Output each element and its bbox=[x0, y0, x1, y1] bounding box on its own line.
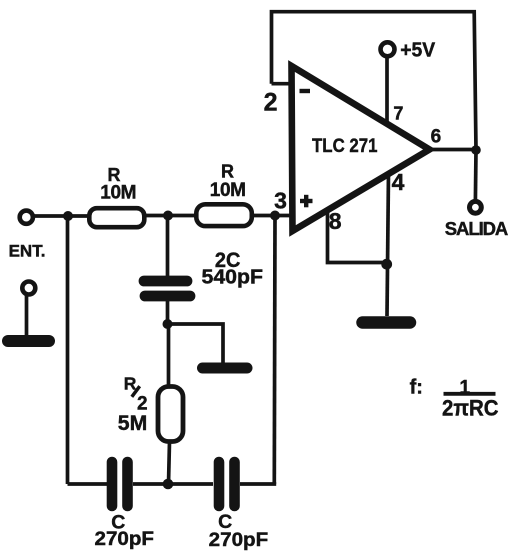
wire input to node A bbox=[34, 214, 90, 218]
wire output pin 6 bbox=[428, 148, 477, 152]
svg-text:7: 7 bbox=[393, 104, 403, 124]
node B (R midpoint) bbox=[163, 211, 173, 221]
capacitor 2C 540pF (plates) bbox=[144, 276, 187, 287]
svg-text:2πRC: 2πRC bbox=[442, 396, 499, 421]
terminal SALIDA (open circle) bbox=[470, 201, 482, 213]
resistor R1 10M bbox=[89, 208, 144, 227]
terminal ground input (open circle) bbox=[22, 282, 35, 295]
svg-text:2: 2 bbox=[264, 89, 278, 117]
svg-text:f:: f: bbox=[410, 377, 423, 399]
op-amp U1 TLC271 bbox=[292, 66, 430, 231]
svg-text:540pF: 540pF bbox=[202, 267, 264, 289]
wire pin 8 bbox=[328, 211, 386, 263]
ground (input) bbox=[8, 335, 49, 347]
terminal ENT (input open circle) bbox=[20, 211, 33, 224]
wire R1 to R2 bbox=[146, 214, 196, 218]
minus sign (pin 2) bbox=[300, 89, 311, 93]
plus sign (pin 3) bbox=[300, 199, 313, 203]
svg-text:SALIDA: SALIDA bbox=[445, 218, 509, 239]
wire 2C to node D bbox=[166, 300, 170, 324]
wire feedback top bbox=[272, 12, 477, 150]
svg-text:4: 4 bbox=[392, 169, 405, 195]
wire node D to ground arm bbox=[168, 324, 224, 364]
wire left vertical rail bbox=[66, 216, 70, 484]
wire output to SALIDA bbox=[474, 150, 478, 200]
svg-text:6: 6 bbox=[431, 126, 442, 147]
resistor R/2 5M bbox=[158, 387, 183, 442]
wire pin 2 stub bbox=[272, 82, 292, 86]
svg-text:5M: 5M bbox=[118, 411, 148, 435]
svg-text:10M: 10M bbox=[100, 183, 136, 204]
svg-text:10M: 10M bbox=[210, 180, 246, 201]
node E (C midpoint) bbox=[163, 479, 174, 490]
svg-text:270pF: 270pF bbox=[95, 529, 155, 550]
svg-text:TLC 271: TLC 271 bbox=[312, 135, 378, 157]
wire right vertical rail bbox=[272, 216, 276, 485]
node G (pin4/pin8 junction) bbox=[381, 259, 392, 270]
svg-text:ENT.: ENT. bbox=[9, 242, 46, 261]
wire node D to R/2 bbox=[167, 324, 171, 387]
wire bottom rail left bbox=[68, 482, 108, 486]
wire pin 7 bbox=[385, 57, 389, 125]
svg-text:8: 8 bbox=[329, 208, 342, 234]
terminal +5V (open circle) bbox=[381, 42, 395, 56]
svg-text:270pF: 270pF bbox=[209, 530, 269, 551]
ground (op-amp) bbox=[363, 316, 411, 329]
fraction bar bbox=[444, 392, 496, 396]
node F (output junction) bbox=[471, 145, 481, 155]
resistor R2 10M bbox=[196, 204, 252, 226]
capacitor C2 270pF (plates) bbox=[214, 462, 225, 506]
svg-text:3: 3 bbox=[274, 188, 287, 214]
wire ground input bbox=[25, 296, 29, 338]
svg-text:R: R bbox=[221, 162, 234, 182]
wire R/2 to node E bbox=[169, 442, 170, 485]
wire pin 4 bbox=[387, 172, 389, 316]
wire node B down to 2C bbox=[166, 216, 170, 278]
node D (T junction to ground) bbox=[163, 319, 173, 329]
ground (twin-T arm) bbox=[203, 363, 248, 374]
node A (input junction) bbox=[63, 211, 73, 221]
wire bottom rail middle bbox=[133, 482, 213, 486]
svg-text:+5V: +5V bbox=[400, 40, 436, 62]
node C (pin 3 junction) bbox=[270, 211, 280, 221]
wire R2 to pin 3 bbox=[253, 214, 292, 218]
wire bottom rail right bbox=[240, 482, 276, 486]
capacitor C1 270pF (plates) bbox=[107, 462, 118, 506]
